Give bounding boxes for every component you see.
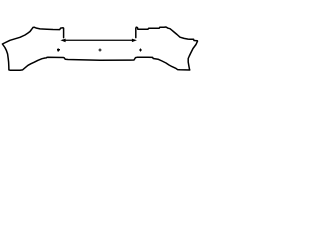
left arrowhead	[60, 39, 65, 43]
dimension line	[62, 39, 135, 41]
marker cross center	[98, 49, 101, 52]
bumper outline	[2, 27, 197, 70]
marker cross left	[57, 48, 60, 51]
marker cross right	[139, 49, 142, 52]
right arrowhead	[132, 39, 137, 43]
